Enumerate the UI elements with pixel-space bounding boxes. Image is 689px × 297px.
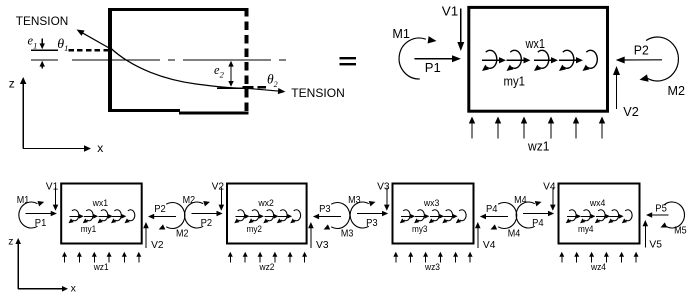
- svg-text:wx2: wx2: [257, 198, 273, 208]
- distributed torque loop 4 (wx1): [563, 50, 574, 68]
- distributed axial arrow 1 (segment 4): [567, 215, 577, 217]
- distributed torque loop 3 (wx3): [432, 210, 439, 221]
- distributed axial arrow 2 (my1 row): [506, 59, 523, 61]
- shear V2 down arrow: [220, 188, 222, 207]
- distributed torque loop 5 (wx2): [294, 210, 301, 221]
- svg-text:V4: V4: [543, 181, 556, 193]
- shear V4 down arrow: [552, 188, 554, 207]
- distributed torque loop 1 (wx2): [238, 210, 245, 221]
- svg-text:e1: e1: [28, 34, 38, 51]
- centroid level line left: [31, 59, 58, 61]
- axial P4 right arrow: [523, 213, 550, 215]
- svg-text:V3: V3: [316, 239, 329, 251]
- distributed axial arrow 4 (segment 2): [278, 215, 288, 217]
- distributed torque loop 5 (wx1): [128, 210, 135, 221]
- distributed load wz3 up arrows: [395, 256, 397, 263]
- svg-text:e2: e2: [214, 63, 225, 80]
- svg-text:P2: P2: [634, 43, 649, 58]
- beam outline left edge: [108, 8, 112, 112]
- svg-text:wz3: wz3: [424, 262, 440, 272]
- svg-text:wx4: wx4: [589, 198, 605, 208]
- svg-text:V2: V2: [212, 181, 225, 193]
- distributed torque loop 4 (wx3): [446, 210, 453, 221]
- svg-text:wz1: wz1: [93, 262, 109, 272]
- distributed axial arrow 1 (segment 1): [70, 215, 80, 217]
- axial P2 left arrow (on segment 1): [153, 216, 177, 218]
- distributed torque loop 2 (wx1): [510, 50, 521, 68]
- svg-text:x: x: [97, 141, 103, 155]
- distributed axial arrow 4 (my1 row): [559, 59, 576, 61]
- svg-text:my1: my1: [81, 224, 97, 234]
- distributed axial arrow 2 (segment 2): [250, 215, 260, 217]
- beam outline bottom edge left segment: [108, 109, 180, 112]
- shear V1 down arrow: [460, 9, 462, 45]
- moment M1 arc (left of segment 1): [19, 202, 38, 228]
- beam outline top edge: [108, 8, 249, 11]
- distributed load wz4 up arrows: [561, 256, 563, 263]
- svg-text:wz2: wz2: [259, 262, 275, 272]
- tension force arrow lower-right: [247, 88, 280, 91]
- svg-text:V3: V3: [377, 181, 390, 193]
- svg-text:M1: M1: [392, 27, 410, 41]
- distributed torque loop 1 (wx4): [569, 210, 576, 221]
- axial P2 left arrow: [622, 59, 662, 61]
- shear V3 down arrow: [386, 188, 388, 207]
- distributed torque loop 4 (wx1): [114, 210, 121, 221]
- beam outline right edge dashed: [245, 8, 249, 114]
- svg-text:V5: V5: [649, 238, 662, 250]
- distributed axial arrow 3 (my1 row): [534, 59, 551, 61]
- distributed axial arrow 4 (segment 4): [609, 215, 619, 217]
- distributed axial arrow 3 (segment 1): [99, 215, 109, 217]
- svg-text:P1: P1: [35, 217, 47, 229]
- svg-text:my3: my3: [412, 224, 428, 234]
- distributed torque loop 3 (wx4): [598, 210, 605, 221]
- tension force arrow upper-left: [81, 32, 110, 48]
- axial P3 right arrow: [357, 213, 384, 215]
- shear V2 up arrow (on segment 1): [145, 227, 147, 248]
- shear V1 down arrow: [55, 188, 57, 207]
- svg-text:M3: M3: [348, 194, 361, 206]
- svg-text:wz1: wz1: [527, 138, 549, 153]
- svg-text:wx1: wx1: [525, 36, 545, 51]
- moment M2 arc (left of segment 2): [185, 202, 204, 228]
- distributed torque loop 5 (wx4): [625, 210, 632, 221]
- svg-text:P4: P4: [486, 203, 498, 215]
- moment M3 arc (left of segment 3): [350, 202, 369, 228]
- svg-text:TENSION: TENSION: [16, 14, 69, 28]
- svg-text:P2: P2: [201, 217, 213, 229]
- svg-text:M3: M3: [341, 227, 354, 239]
- distributed torque loop 3 (wx1): [538, 50, 549, 68]
- moment M2 arc (on segment 1): [166, 203, 185, 229]
- shear V4 up arrow (on segment 3): [477, 227, 479, 248]
- distributed load wz1 up arrows: [64, 256, 66, 263]
- block outline: [469, 7, 608, 111]
- tendon end level line left: [31, 49, 58, 51]
- distributed axial arrow 1 (segment 2): [235, 215, 245, 217]
- distributed axial arrow 3 (segment 2): [264, 215, 274, 217]
- moment M4 arc (on segment 3): [498, 203, 517, 229]
- segment 2 block outline: [227, 184, 307, 244]
- axial P3 left arrow (on segment 2): [318, 216, 342, 218]
- svg-text:P2: P2: [154, 203, 166, 215]
- distributed axial arrow 4 (segment 1): [112, 215, 122, 217]
- distributed axial arrow 3 (segment 4): [596, 215, 606, 217]
- distributed axial arrow 1 (segment 3): [401, 215, 411, 217]
- svg-text:θ2: θ2: [267, 72, 278, 90]
- distributed torque loop 2 (wx1): [86, 210, 93, 221]
- distributed load wz2 up arrows: [229, 256, 231, 263]
- moment M3 arc (on segment 2): [331, 203, 350, 229]
- axial P5 left arrow: [651, 214, 669, 216]
- distributed torque loop 2 (wx2): [252, 210, 259, 221]
- distributed torque loop 3 (wx1): [101, 210, 108, 221]
- svg-text:P1: P1: [425, 60, 441, 75]
- axial P1 right arrow: [415, 58, 455, 60]
- svg-text:wx3: wx3: [423, 198, 439, 208]
- beam outline bottom edge right segment: [179, 112, 249, 115]
- svg-text:wx1: wx1: [92, 198, 108, 208]
- svg-text:x: x: [71, 282, 77, 294]
- svg-text:M4: M4: [508, 227, 521, 239]
- tendon end level line right: [217, 87, 247, 89]
- e2 dimension double arrow: [230, 64, 232, 83]
- tendon profile curve: [110, 48, 247, 89]
- svg-text:M2: M2: [668, 83, 686, 98]
- moment M2 arc: [646, 37, 678, 81]
- svg-text:z: z: [9, 77, 15, 91]
- distributed load wz1 up arrows: [471, 122, 473, 139]
- distributed torque loop 1 (wx3): [403, 210, 410, 221]
- svg-text:my2: my2: [247, 224, 263, 234]
- distributed torque loop 5 (wx3): [459, 210, 466, 221]
- distributed axial arrow 1 (my1 row): [482, 59, 499, 61]
- distributed axial arrow 2 (segment 1): [84, 215, 94, 217]
- svg-text:P3: P3: [366, 217, 378, 229]
- thick dashed tendon extension right: [243, 86, 267, 89]
- svg-text:M2: M2: [176, 227, 189, 239]
- e1 dimension down arrow: [41, 39, 43, 45]
- svg-text:M4: M4: [514, 194, 527, 206]
- svg-text:V1: V1: [442, 3, 459, 18]
- distributed torque loop 2 (wx3): [418, 210, 425, 221]
- distributed torque loop 5 (wx1): [586, 50, 597, 68]
- svg-text:V2: V2: [151, 239, 164, 251]
- svg-text:V4: V4: [483, 239, 496, 251]
- thick dashed tendon extension left: [69, 49, 113, 52]
- distributed torque loop 1 (wx1): [486, 50, 497, 68]
- distributed torque loop 2 (wx4): [584, 210, 591, 221]
- svg-text:my4: my4: [578, 224, 594, 234]
- distributed axial arrow 4 (segment 3): [443, 215, 453, 217]
- moment M1 arc: [399, 38, 426, 79]
- e1 dimension up arrow: [41, 65, 43, 68]
- shear V3 up arrow (on segment 2): [310, 227, 312, 248]
- svg-text:θ1: θ1: [57, 37, 68, 53]
- svg-text:my1: my1: [504, 74, 526, 89]
- svg-text:wz4: wz4: [590, 262, 606, 272]
- svg-text:V2: V2: [623, 104, 639, 119]
- shear V5 up arrow: [644, 225, 646, 248]
- axial P1 right arrow: [26, 213, 53, 215]
- distributed axial arrow 2 (segment 4): [581, 215, 591, 217]
- svg-text:V1: V1: [46, 181, 59, 193]
- equals sign: [340, 57, 357, 59]
- svg-text:P3: P3: [319, 203, 331, 215]
- segment 4 block outline: [559, 184, 640, 244]
- svg-text:P4: P4: [532, 217, 544, 229]
- distributed torque loop 4 (wx4): [612, 210, 619, 221]
- distributed torque loop 3 (wx2): [267, 210, 274, 221]
- svg-text:TENSION: TENSION: [291, 86, 345, 100]
- shear V2 up arrow: [616, 73, 618, 109]
- distributed torque loop 4 (wx2): [280, 210, 287, 221]
- moment M5 arc: [664, 202, 685, 228]
- axial P2 right arrow: [192, 213, 219, 215]
- svg-text:M5: M5: [674, 225, 687, 237]
- segment 3 block outline: [393, 184, 474, 244]
- distributed axial arrow 3 (segment 3): [430, 215, 440, 217]
- svg-text:z: z: [8, 236, 13, 248]
- distributed axial arrow 2 (segment 3): [415, 215, 425, 217]
- svg-text:M1: M1: [17, 194, 30, 206]
- axial P4 left arrow (on segment 3): [484, 216, 508, 218]
- moment M4 arc (left of segment 4): [516, 202, 535, 228]
- segment 1 block outline: [61, 184, 142, 244]
- distributed torque loop 1 (wx1): [72, 210, 79, 221]
- beam centroid dash-dot axis line: [72, 59, 291, 61]
